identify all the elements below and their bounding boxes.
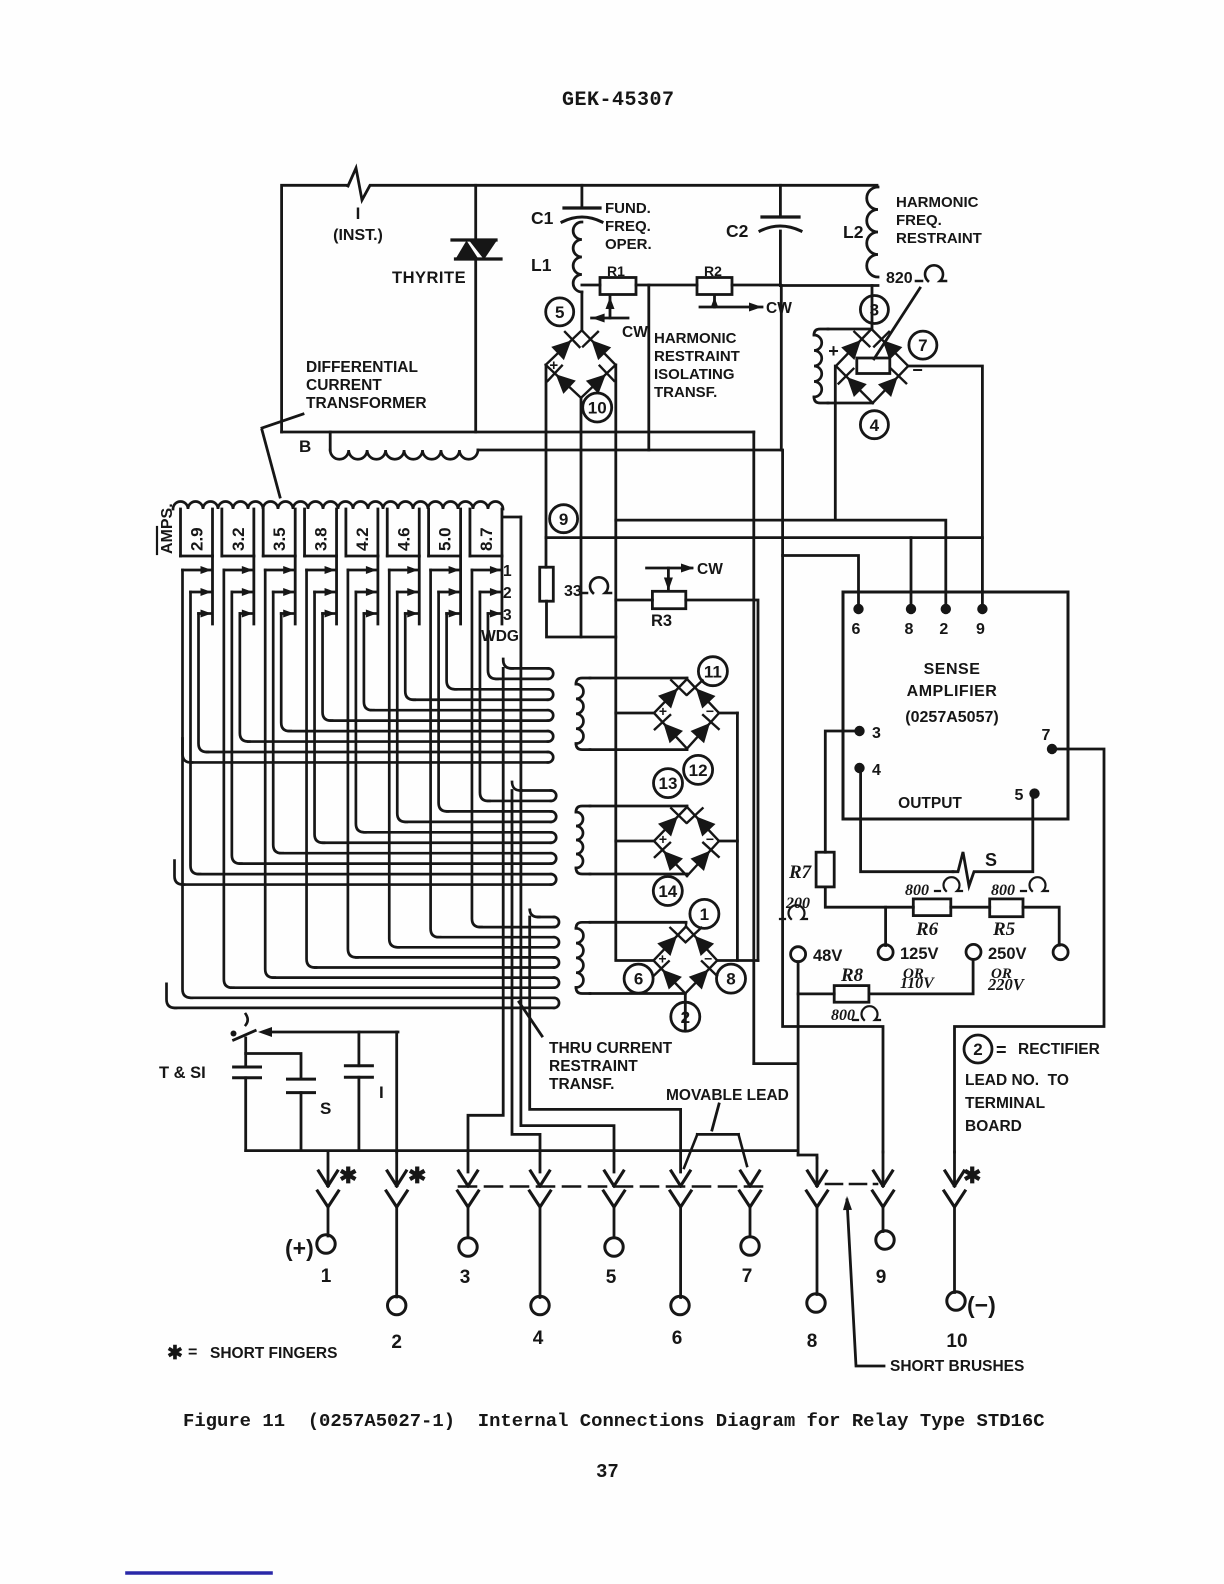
svg-text:HARMONIC: HARMONIC (896, 194, 979, 211)
svg-text:R3: R3 (651, 612, 672, 630)
svg-text:ISOLATING: ISOLATING (654, 366, 735, 383)
node lead 13 circle (654, 769, 683, 798)
wire L2 bottom to C2 bottom (780, 284, 878, 287)
svg-text:−: − (704, 951, 712, 967)
tap cell 3.8 (303, 509, 306, 556)
svg-text:(+): (+) (285, 1235, 314, 1261)
wire winding to bridge bottom corner (590, 992, 685, 995)
tap cell 4.6 (386, 509, 389, 556)
svg-text:LEAD NO. TO: LEAD NO. TO (965, 1072, 1069, 1089)
svg-text:CURRENT: CURRENT (306, 377, 382, 394)
terminal 1 circle (+) (317, 1235, 335, 1253)
pin 9 (977, 604, 987, 614)
svg-text:1: 1 (503, 563, 512, 580)
node lead 4 circle (860, 411, 888, 439)
wire tank/B node down to terminal 9 feed (783, 450, 883, 1152)
svg-text:4.6: 4.6 (394, 527, 413, 551)
svg-text:6: 6 (672, 1328, 683, 1349)
svg-text:3.8: 3.8 (312, 527, 331, 551)
svg-text:L1: L1 (531, 255, 552, 275)
resistor 820 ohm inside bridge (857, 358, 890, 374)
svg-text:RESTRAINT: RESTRAINT (896, 230, 982, 247)
capacitor C1 (581, 185, 584, 208)
svg-text:48V: 48V (813, 947, 842, 965)
pin 3 (854, 726, 864, 736)
terminal 2 arrow and brush (395, 1152, 398, 1184)
svg-text:+: + (659, 831, 667, 847)
capacitor S branch (246, 1054, 301, 1080)
svg-text:3: 3 (460, 1267, 471, 1288)
terminal 6 circle (671, 1296, 689, 1314)
svg-text:7: 7 (742, 1266, 753, 1287)
svg-text:3.2: 3.2 (229, 527, 248, 551)
terminal 125V (878, 945, 893, 960)
wire winding to bridge bottom corner (590, 748, 687, 751)
tap cell 8.7 (469, 509, 472, 556)
svg-text:1: 1 (321, 1266, 332, 1287)
terminal 8 arrow and brush (816, 1158, 819, 1184)
svg-text:11: 11 (704, 662, 722, 681)
svg-text:33: 33 (564, 583, 582, 600)
svg-text:+: + (828, 341, 839, 361)
node lead 11 circle (698, 657, 727, 686)
bottom left blue underline mark (127, 1571, 271, 1575)
svg-text:C2: C2 (726, 221, 749, 241)
svg-text:3: 3 (872, 725, 881, 742)
svg-text:8.7: 8.7 (477, 527, 496, 551)
winding1 common vertical down to terminal 3 (503, 659, 513, 668)
svg-text:2: 2 (939, 621, 948, 638)
terminal 6 arrow and brush (671, 1171, 681, 1186)
svg-text:SHORT BRUSHES: SHORT BRUSHES (890, 1358, 1024, 1375)
terminal 250V (966, 944, 981, 959)
wire bridge3 bottom down through lead 2 (684, 994, 687, 1032)
svg-text:5: 5 (606, 1267, 617, 1288)
wire pin6 line (783, 556, 859, 607)
svg-text:Figure 11 (0257A5027-1) Inte: Figure 11 (0257A5027-1) Internal Connect… (183, 1410, 1045, 1432)
winding2 common vertical down to terminal 4 (512, 782, 522, 791)
wire bridge right corner down (plus bus) (614, 365, 617, 959)
svg-text:S: S (320, 1099, 331, 1118)
wire pin7 right and down to terminal 10 (955, 749, 1105, 1152)
svg-text:2: 2 (973, 1040, 982, 1059)
wire top box outline with break (282, 185, 348, 432)
node lead 8 circle (717, 964, 746, 993)
svg-text:−: − (706, 703, 714, 719)
svg-text:TRANSF.: TRANSF. (549, 1076, 614, 1093)
rectifier bridge 5/10 (546, 330, 616, 398)
wire winding to bridge top corner (590, 677, 687, 680)
svg-text:820: 820 (886, 270, 913, 287)
svg-text:THYRITE: THYRITE (392, 269, 466, 287)
wire switch rail to terminal 2 feed (395, 1032, 398, 1152)
pin 6 (853, 604, 863, 614)
wire winding to bridge top corner (590, 805, 687, 808)
svg-text:BOARD: BOARD (965, 1118, 1022, 1135)
svg-text:6: 6 (852, 621, 861, 638)
svg-text:4: 4 (870, 416, 880, 435)
terminal 7 movable lead legs and brush (684, 1134, 697, 1168)
wire B winding to tank riser (478, 449, 781, 452)
svg-text:2.9: 2.9 (188, 527, 207, 551)
svg-text:R6: R6 (915, 919, 939, 940)
wire terminal 8 feed jog (798, 1155, 817, 1158)
svg-text:R5: R5 (992, 919, 1016, 940)
svg-text:CW: CW (766, 300, 792, 317)
resistor R7 (816, 852, 834, 887)
svg-text:−: − (706, 831, 714, 847)
wire bridge3 plus to bus (616, 959, 654, 962)
wire R8 right up to 250V (869, 959, 973, 994)
svg-text:TRANSFORMER: TRANSFORMER (306, 395, 427, 412)
svg-text:OUTPUT: OUTPUT (898, 795, 962, 812)
node lead 6 circle (624, 964, 653, 993)
terminal 5 arrow and brush (605, 1171, 615, 1186)
terminal 7 circle (741, 1237, 759, 1255)
resistor R8 (834, 986, 869, 1003)
inductor L2 (867, 187, 878, 277)
svg-text:125V: 125V (900, 945, 939, 963)
wire bridge3 minus node horizontal (717, 959, 758, 962)
wire pin8 line from node 9 (546, 536, 982, 539)
weave verticals from taps rounding into winding rows (hang from cell bottoms) (199, 614, 209, 753)
svg-text:8: 8 (726, 970, 735, 989)
transformer secondary winding (harmonic restraint) (814, 329, 828, 335)
svg-text:RESTRAINT: RESTRAINT (549, 1058, 638, 1075)
svg-text:3.5: 3.5 (270, 527, 289, 551)
tap cell 3.2 (220, 509, 223, 556)
wdg common vertical down to terminal 5 (521, 517, 614, 1172)
svg-text:✱: ✱ (339, 1163, 357, 1188)
svg-text:OPER.: OPER. (605, 236, 652, 253)
node lead 3 circle (860, 296, 888, 324)
svg-text:800: 800 (905, 882, 929, 899)
pointer to thru current text (519, 1002, 542, 1036)
node lead 5 circle (546, 298, 574, 326)
wire R1R2 junction down to B line (647, 285, 650, 450)
wire R3 right down to bridge3 minus node (686, 600, 758, 961)
wire winding to bridge bottom corner (828, 402, 873, 405)
svg-text:MOVABLE LEAD: MOVABLE LEAD (666, 1087, 789, 1104)
svg-text:RESTRAINT: RESTRAINT (654, 348, 740, 365)
svg-text:FREQ.: FREQ. (896, 212, 942, 229)
terminal 3 arrow and brush (459, 1171, 469, 1186)
terminal 2 circle (388, 1296, 406, 1314)
wiper arrow CW for R2 (713, 296, 716, 307)
svg-text:9: 9 (876, 1267, 887, 1288)
winding3 common vertical down to terminal 6 (530, 909, 540, 918)
svg-text:800: 800 (991, 882, 1015, 899)
svg-text:=: = (188, 1344, 197, 1361)
svg-text:T & SI: T & SI (159, 1064, 206, 1082)
rectifier bridge (654, 679, 719, 749)
svg-text:+: + (659, 703, 667, 719)
terminal 8 circle (807, 1294, 825, 1312)
rectifier bridge D3/D7/D4 with resistor (836, 329, 908, 403)
svg-text:SHORT FINGERS: SHORT FINGERS (210, 1345, 337, 1362)
svg-text:250V: 250V (988, 945, 1027, 963)
node lead 10 circle (583, 393, 612, 422)
tap cell 3.5 (262, 509, 265, 556)
terminal 9 arrow and brush (882, 1152, 885, 1184)
svg-text:5.0: 5.0 (436, 527, 455, 551)
svg-text:TRANSF.: TRANSF. (654, 384, 717, 401)
svg-text:FREQ.: FREQ. (605, 218, 651, 235)
svg-text:CW: CW (697, 561, 723, 578)
svg-text:I: I (379, 1083, 384, 1102)
resistor R5 (990, 899, 1023, 917)
svg-text:8: 8 (807, 1331, 818, 1352)
svg-text:7: 7 (1042, 727, 1051, 744)
terminal 48V (791, 947, 806, 962)
wire box bottom corner down (left dc bus) (752, 432, 755, 1064)
svg-text:GEK-45307: GEK-45307 (562, 89, 675, 112)
svg-text:−: − (912, 360, 923, 380)
terminal 5 circle (605, 1238, 623, 1256)
wire L1/R1 node down to bridge top (581, 292, 584, 330)
svg-text:5: 5 (555, 303, 564, 322)
switch movable contact (246, 1014, 248, 1025)
winding (thru current restraint transformer secondary) (576, 922, 590, 928)
wire 48V down joining R8 (797, 962, 800, 1155)
svg-text:B: B (299, 437, 311, 456)
svg-text:9: 9 (559, 510, 568, 529)
switch blade dot (231, 1031, 237, 1037)
svg-text:DIFFERENTIAL: DIFFERENTIAL (306, 359, 418, 376)
wire bridge top corner up to tank bottom (871, 286, 874, 330)
svg-text:✱: ✱ (408, 1163, 426, 1188)
svg-text:12: 12 (689, 761, 708, 780)
svg-text:(INST.): (INST.) (333, 227, 383, 244)
wire winding to bridge top corner (590, 921, 686, 924)
svg-text:110V: 110V (900, 975, 935, 992)
terminal 1 arrow and brush (327, 1152, 330, 1184)
tap winding step to wdg line (503, 516, 521, 519)
wire bridge1 minus to bus (719, 712, 737, 715)
svg-text:9: 9 (976, 621, 985, 638)
capacitor I branch (357, 1032, 360, 1066)
svg-text:4: 4 (872, 762, 881, 779)
svg-text:220V: 220V (987, 975, 1026, 994)
svg-text:10: 10 (946, 1331, 967, 1352)
capacitor T and SI (244, 1038, 247, 1067)
resistor R6 (913, 899, 951, 916)
svg-text:✱: ✱ (167, 1343, 183, 1364)
svg-text:CW: CW (622, 324, 648, 341)
svg-text:SENSE: SENSE (924, 661, 981, 678)
wire box bottom edge (282, 431, 754, 434)
svg-text:3: 3 (503, 607, 512, 624)
svg-text:800: 800 (831, 1007, 855, 1024)
wire R7 bottom to resistor chain (825, 887, 913, 907)
pointer dashes to winding (262, 414, 303, 428)
wire dc bus corner to terminal8 feed (754, 1062, 798, 1065)
svg-text:C1: C1 (531, 208, 554, 228)
brush dashed line (459, 1185, 762, 1188)
wire bridge plus corner down to pin2 line (834, 366, 837, 520)
svg-text:10: 10 (588, 399, 607, 418)
note rectifier lead number (964, 1035, 992, 1063)
tap cell 4.2 (344, 509, 347, 556)
terminal spare (1053, 945, 1068, 960)
wire tank riser (780, 286, 783, 451)
wiper arrow CW for R1 (609, 296, 612, 318)
rectifier bridge (654, 807, 719, 876)
svg-text:L2: L2 (843, 222, 864, 242)
winding (thru current restraint transformer secondary) (576, 678, 590, 684)
wire R6 to R5 (951, 906, 990, 909)
svg-text:+: + (549, 357, 558, 374)
movable lead bus (246, 1149, 798, 1152)
svg-text:S: S (985, 850, 997, 870)
terminal 10 arrow and brush (953, 1152, 956, 1184)
wire pin4 to S break to pin5 (860, 768, 954, 872)
pin 8 (906, 604, 916, 614)
svg-text:=: = (996, 1040, 1007, 1060)
wire R5 right to spare terminal (1023, 907, 1059, 945)
wire bridge1 plus to bus (616, 712, 654, 715)
wire winding to bridge top corner (828, 328, 872, 331)
node lead 14 circle (653, 877, 682, 906)
terminal 4 circle (531, 1296, 549, 1314)
tap main leads with arrow taps (211, 556, 214, 624)
svg-text:14: 14 (658, 882, 677, 901)
wire bridge bottom corner down (580, 398, 583, 637)
svg-text:I: I (356, 204, 361, 223)
terminal 10 circle (-) (947, 1292, 965, 1310)
node lead 7 circle (909, 331, 937, 359)
svg-text:13: 13 (659, 774, 678, 793)
wire pin3 to R7 (825, 731, 859, 852)
svg-text:FUND.: FUND. (605, 200, 651, 217)
svg-text:R7: R7 (788, 862, 813, 883)
svg-text:2: 2 (391, 1332, 402, 1353)
resistor 33 ohm (540, 567, 554, 601)
pin 4 (854, 763, 864, 773)
op-amp box SENSE AMPLIFIER (843, 592, 1068, 819)
movable lead top bar (697, 1133, 738, 1136)
svg-text:4: 4 (533, 1328, 544, 1349)
wire pin2 line (616, 520, 946, 606)
winding rows with hairpin hooks (512, 667, 548, 670)
tap cell 5.0 (427, 509, 430, 556)
svg-text:4.2: 4.2 (353, 527, 372, 551)
node lead 1 circle (690, 899, 719, 928)
terminal 3 circle (459, 1238, 477, 1256)
wire bridge2 plus to bus (616, 840, 654, 843)
svg-text:(−): (−) (967, 1292, 996, 1318)
pin 7 (1047, 744, 1057, 754)
inductor L1 (573, 222, 582, 292)
node lead 12 circle (684, 755, 713, 784)
wiper arrow CW for R3 (667, 568, 670, 589)
pin 5 (1029, 788, 1039, 798)
potentiometer R3 (652, 591, 685, 608)
pin 2 (941, 604, 951, 614)
svg-text:(0257A5057): (0257A5057) (905, 709, 998, 726)
svg-text:R8: R8 (840, 965, 864, 986)
svg-text:8: 8 (905, 621, 914, 638)
svg-text:TERMINAL: TERMINAL (965, 1095, 1045, 1112)
svg-text:+: + (658, 951, 666, 967)
tap winding scallop line (173, 502, 503, 510)
wire bridge left corner down (node 9 line) (545, 365, 548, 567)
svg-text:RECTIFIER: RECTIFIER (1018, 1041, 1100, 1058)
svg-text:THRU CURRENT: THRU CURRENT (549, 1040, 673, 1057)
svg-text:37: 37 (596, 1461, 619, 1483)
svg-text:1: 1 (700, 905, 709, 924)
terminal 4 arrow and brush (531, 1171, 541, 1186)
wire 33 ohm bottom to plus bus (547, 601, 616, 637)
wire winding to bridge bottom corner (590, 873, 687, 876)
pointer line 820 ohm to bridge resistor (874, 288, 920, 359)
node lead 9 circle (550, 505, 578, 533)
winding (thru current restraint transformer secondary) (576, 806, 590, 812)
winding B (CT secondary) (329, 432, 332, 450)
svg-text:6: 6 (634, 970, 643, 989)
rectifier bridge (654, 927, 718, 994)
svg-text:AMPLIFIER: AMPLIFIER (907, 683, 998, 700)
terminal 9 circle (876, 1231, 894, 1249)
svg-text:2: 2 (503, 585, 512, 602)
svg-text:7: 7 (918, 336, 927, 355)
svg-text:✱: ✱ (963, 1163, 981, 1188)
minus bus for bridge 1 and 2 (736, 713, 739, 961)
varistor THYRITE (474, 185, 477, 241)
node lead 2 circle (671, 1002, 700, 1031)
wire bridge2 minus to bus (719, 840, 737, 843)
wire junction down to 125V terminal (884, 907, 887, 945)
tap cell 2.9 (179, 509, 182, 556)
svg-text:AMPS.: AMPS. (159, 503, 176, 554)
svg-text:HARMONIC: HARMONIC (654, 330, 737, 347)
capacitor C2 (779, 185, 782, 217)
svg-text:5: 5 (1015, 787, 1024, 804)
wire bridge minus corner to sense pin 9 riser (908, 366, 982, 604)
